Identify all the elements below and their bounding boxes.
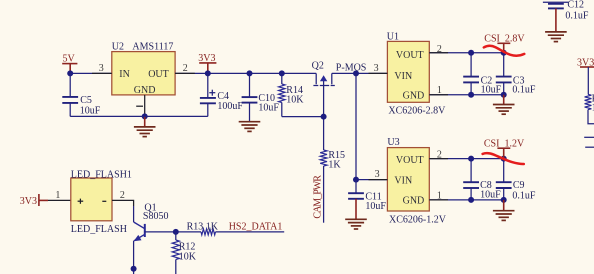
wire 3V3 to LED pin1 bbox=[48, 199, 71, 201]
wire R15 to CAM_PWR bbox=[323, 166, 325, 223]
svg-text:CAM_PWR: CAM_PWR bbox=[312, 175, 323, 219]
capacitor C8 leads bbox=[470, 159, 472, 200]
svg-text:0.1uF: 0.1uF bbox=[512, 84, 536, 95]
node 3V3 junction bbox=[205, 70, 211, 76]
wire U1 VOUT 2.8V rail bbox=[429, 52, 503, 54]
svg-text:HS2_DATA1: HS2_DATA1 bbox=[229, 222, 283, 233]
red marker squiggle 1.2V bbox=[483, 153, 524, 164]
svg-text:XC6206-2.8V: XC6206-2.8V bbox=[388, 105, 446, 116]
svg-text:10uF: 10uF bbox=[481, 84, 502, 95]
capacitor C3 leads bbox=[503, 53, 505, 95]
svg-text:1: 1 bbox=[55, 190, 60, 201]
node C8 bottom bbox=[468, 197, 474, 203]
node C9 bottom bbox=[501, 197, 507, 203]
resistor R14 top lead bbox=[281, 73, 283, 84]
ground below U2 bbox=[134, 116, 156, 136]
wire Q1 base to R13 bbox=[145, 231, 201, 233]
capacitor C9 bbox=[496, 182, 512, 188]
resistor R12 top lead bbox=[175, 232, 177, 240]
svg-text:LED_FLASH1: LED_FLASH1 bbox=[71, 169, 132, 180]
svg-text:3: 3 bbox=[375, 169, 380, 180]
C10 bottom lead bbox=[249, 103, 251, 122]
wire 3V3 right to resistor bbox=[587, 67, 589, 94]
U3 VOUT pin black segment bbox=[429, 158, 448, 160]
node VIN junction bbox=[353, 70, 359, 76]
svg-text:2: 2 bbox=[183, 63, 188, 74]
svg-text:10uF: 10uF bbox=[258, 102, 279, 113]
svg-text:VOUT: VOUT bbox=[396, 50, 424, 61]
U1 VIN pin black segment bbox=[369, 72, 388, 74]
svg-text:VOUT: VOUT bbox=[396, 155, 424, 166]
resistor R right edge bbox=[585, 94, 592, 109]
node C11 junction bbox=[353, 177, 359, 183]
svg-text:0.1uF: 0.1uF bbox=[565, 10, 589, 21]
svg-text:GND: GND bbox=[403, 196, 425, 207]
node C3 bottom bbox=[501, 92, 507, 98]
svg-text:10K: 10K bbox=[179, 251, 197, 262]
svg-text:10uF: 10uF bbox=[480, 189, 501, 200]
R12 bottom lead bbox=[175, 260, 177, 274]
svg-text:Q2: Q2 bbox=[312, 61, 324, 72]
resistor R15 bbox=[320, 150, 327, 166]
wire U2 OUT to Q2 bbox=[175, 72, 316, 74]
U1 GND pin black segment bbox=[429, 94, 448, 96]
svg-text:VIN: VIN bbox=[394, 71, 412, 82]
capacitor C8 bbox=[463, 182, 479, 188]
wire LED pin2 to Q1 collector bbox=[112, 200, 134, 206]
capacitor C10 top lead bbox=[249, 73, 251, 97]
svg-text:P-MOS: P-MOS bbox=[336, 62, 367, 73]
C4 plus sign bbox=[209, 90, 215, 96]
red marker squiggle 2.8V bbox=[484, 46, 525, 56]
svg-text:U1: U1 bbox=[387, 32, 399, 43]
node C2 bottom bbox=[468, 92, 474, 98]
node C3 top bbox=[501, 50, 507, 56]
capacitor C12 bbox=[548, 4, 564, 9]
resistor R14 bbox=[279, 84, 285, 103]
node R14 junction bbox=[279, 70, 285, 76]
LED minus pin name bbox=[102, 200, 106, 202]
C4 bottom lead bbox=[207, 103, 209, 116]
capacitor C11 top lead bbox=[355, 180, 357, 193]
capacitor C5 bbox=[62, 97, 78, 103]
C5 bottom lead bbox=[69, 103, 71, 117]
capacitor C11 bbox=[348, 193, 364, 199]
power port CSI_2.8V bbox=[484, 34, 525, 53]
node C9 top bbox=[501, 156, 507, 162]
svg-text:IN: IN bbox=[119, 69, 130, 80]
ground below C12 bbox=[545, 32, 567, 42]
ground below C10 bbox=[239, 122, 261, 132]
svg-text:GND: GND bbox=[403, 91, 425, 102]
power port 5V bbox=[62, 54, 77, 74]
wire R14 to Q2 gate bbox=[282, 116, 324, 118]
wire U3 VOUT 1.2V rail bbox=[429, 158, 503, 160]
connector LED_FLASH1 body bbox=[71, 178, 112, 221]
C12 bottom lead bbox=[555, 8, 557, 31]
wire Q2 drain to U1 VIN bbox=[332, 72, 388, 74]
wire VIN vertical to U3 bbox=[355, 73, 357, 179]
svg-text:R13: R13 bbox=[187, 222, 204, 233]
node C2 top bbox=[468, 50, 474, 56]
power port CSI_1.2V bbox=[484, 139, 525, 159]
wire stub right edge upper bbox=[584, 136, 594, 138]
U1 VOUT pin black segment bbox=[429, 52, 448, 54]
capacitor C3 bbox=[496, 77, 512, 83]
svg-text:10K: 10K bbox=[286, 94, 304, 105]
svg-text:3: 3 bbox=[374, 63, 379, 74]
regulator U3 body bbox=[387, 148, 429, 211]
wire U3 GND rail bbox=[429, 199, 503, 201]
node C8 top bbox=[468, 156, 474, 162]
svg-text:LED_FLASH: LED_FLASH bbox=[71, 224, 127, 235]
resistor R12 bbox=[172, 240, 179, 260]
svg-text:C12: C12 bbox=[567, 0, 584, 11]
svg-text:S8050: S8050 bbox=[143, 211, 169, 222]
svg-text:10uF: 10uF bbox=[80, 105, 101, 116]
wire resistor to right edge bbox=[588, 110, 594, 124]
U2 OUT pin black segment bbox=[175, 72, 195, 74]
svg-text:3V3: 3V3 bbox=[20, 196, 37, 207]
svg-text:VIN: VIN bbox=[394, 176, 412, 187]
wire Q1 emitter down bbox=[133, 241, 135, 274]
wire C12 top bbox=[543, 1, 568, 3]
capacitor C4 polarized bbox=[200, 98, 216, 103]
svg-text:OUT: OUT bbox=[148, 69, 169, 80]
node C10 junction bbox=[247, 70, 253, 76]
U2 GND pin designator dash bbox=[136, 105, 143, 107]
power port 3V3 left bbox=[20, 194, 48, 207]
svg-text:2: 2 bbox=[120, 190, 125, 201]
capacitor C5 top lead bbox=[69, 73, 71, 96]
node GND rail junction bbox=[142, 113, 148, 119]
capacitor C10 bbox=[242, 97, 258, 103]
wire to U3 VIN bbox=[356, 179, 387, 181]
transistor Q1 NPN symbol bbox=[134, 222, 145, 241]
ground below C9 bbox=[493, 200, 515, 221]
wire Q2 gate down bbox=[323, 92, 325, 150]
node base junction bbox=[173, 229, 179, 235]
C11 bottom lead bbox=[355, 199, 357, 219]
wire Q1 collector vertical bbox=[133, 206, 135, 222]
svg-text:AMS1117: AMS1117 bbox=[132, 41, 173, 52]
wire 5V to U2 IN bbox=[70, 72, 112, 74]
svg-text:3: 3 bbox=[99, 63, 104, 74]
capacitor C9 leads bbox=[503, 159, 505, 200]
power port 3V3 bbox=[198, 53, 216, 73]
power port 3V3 right edge bbox=[577, 58, 594, 69]
U3 VIN pin black segment bbox=[369, 179, 388, 181]
svg-text:U3: U3 bbox=[387, 137, 399, 148]
node gate junction bbox=[321, 114, 327, 120]
wire ground rail bbox=[70, 115, 208, 117]
U2 GND pin stub bbox=[144, 95, 146, 117]
regulator U2 body bbox=[112, 52, 175, 95]
capacitor C2 bbox=[463, 77, 479, 83]
regulator U1 body bbox=[387, 41, 429, 102]
R14 bottom lead bbox=[281, 103, 283, 117]
wire U1 GND rail bbox=[429, 94, 503, 96]
svg-text:10uF: 10uF bbox=[365, 201, 386, 212]
svg-text:C5: C5 bbox=[80, 95, 92, 106]
LED plus pin name bbox=[78, 199, 84, 204]
transistor Q2 P-MOS symbol bbox=[313, 73, 334, 92]
ground below C11 bbox=[345, 219, 367, 229]
wire stub right edge lower bbox=[585, 146, 594, 148]
svg-text:GND: GND bbox=[134, 85, 156, 96]
node 5V junction bbox=[67, 70, 73, 76]
svg-text:1K: 1K bbox=[206, 221, 219, 232]
U2 IN pin black segment bbox=[92, 72, 112, 74]
svg-text:100uF: 100uF bbox=[217, 101, 243, 112]
node emitter junction bbox=[131, 266, 137, 272]
svg-text:U2: U2 bbox=[112, 41, 124, 52]
resistor R13 bbox=[201, 229, 216, 235]
svg-text:XC6206-1.2V: XC6206-1.2V bbox=[389, 214, 447, 225]
ground below C3 bbox=[493, 95, 515, 114]
svg-text:0.1uF: 0.1uF bbox=[512, 190, 536, 201]
capacitor C4 top lead bbox=[207, 73, 209, 97]
U3 GND pin black segment bbox=[429, 199, 448, 201]
wire R13 to HS2_DATA1 bbox=[216, 231, 285, 233]
capacitor C2 leads bbox=[470, 53, 472, 95]
svg-text:1K: 1K bbox=[328, 159, 341, 170]
